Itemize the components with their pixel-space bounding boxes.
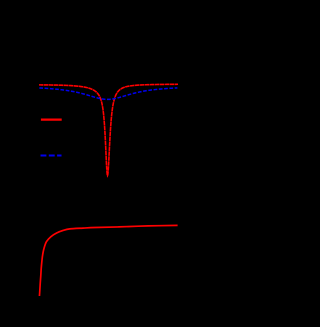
top plot: blue dashed broad shallow dip curve: [39, 88, 177, 100]
bottom plot: red saturation curve: [39, 225, 177, 296]
legend blue dashed line sample: [41, 155, 62, 157]
top plot: red transmission curve with narrow deep dip: [39, 84, 178, 175]
legend red solid line sample: [41, 118, 62, 120]
